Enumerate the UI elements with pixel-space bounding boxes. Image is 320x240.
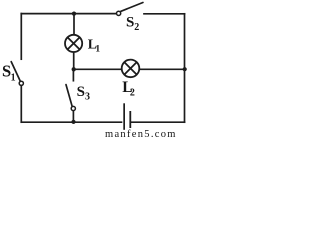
lamp L2: [122, 60, 140, 78]
label S1: [2, 62, 16, 84]
switch S1 blade: [11, 62, 20, 81]
switch S2 blade: [121, 3, 143, 12]
switch S3 terminal circle: [71, 106, 75, 110]
node right junction (L2 branch meets right edge): [183, 67, 187, 71]
label L1: [88, 37, 101, 55]
wire L1 branch lower (lamp L1 down to middle junction): [73, 53, 75, 70]
label S3: [77, 84, 90, 103]
wire S3 stub (middle junction down): [72, 69, 74, 80]
wire right edge: [184, 14, 186, 122]
wire top edge left segment: [21, 13, 116, 15]
svg-text:S: S: [126, 15, 134, 31]
switch S2 terminal circle: [117, 11, 121, 15]
svg-text:2: 2: [130, 87, 135, 98]
node bottom junction (S3 meets bottom wire): [71, 120, 75, 124]
svg-text:1: 1: [95, 44, 100, 54]
node middle junction: [72, 67, 76, 71]
switch S1 terminal circle: [19, 81, 23, 85]
wire S3 to bottom wire: [72, 111, 74, 122]
wire bottom edge left segment (left corner to battery): [21, 121, 121, 123]
svg-text:S: S: [77, 84, 85, 100]
label L2: [122, 79, 135, 98]
wire L1 branch upper (top junction down to lamp L1): [73, 14, 75, 35]
svg-text:2: 2: [134, 22, 139, 33]
wire middle branch (junction to lamp L2): [74, 68, 121, 70]
label S2: [126, 15, 139, 33]
wire bottom edge right segment (battery to right corner): [131, 121, 184, 123]
switch S3 blade: [66, 85, 72, 107]
battery cell short plate (negative): [129, 111, 131, 128]
svg-text:3: 3: [85, 92, 90, 103]
svg-text:1: 1: [11, 72, 16, 83]
wire L2 to right edge: [140, 68, 184, 70]
lamp L1: [65, 35, 82, 52]
wire left edge lower segment (S1 to bottom corner): [20, 86, 22, 123]
battery cell long plate (positive): [123, 103, 125, 130]
wire top edge right segment: [144, 13, 185, 15]
wire left edge upper segment (top corner to S1): [20, 14, 22, 60]
svg-text:manfen5.com: manfen5.com: [105, 129, 177, 139]
node top junction (L1 branch tap): [72, 11, 76, 15]
